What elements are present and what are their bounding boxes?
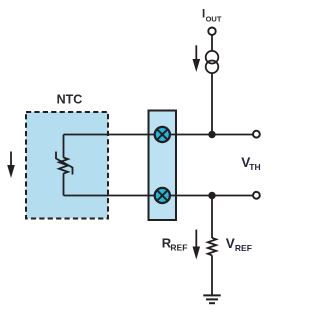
switch block (blue rectangle) [149,111,177,221]
thermistor RT zigzag [59,158,68,174]
svg-text:REF: REF [170,243,187,253]
NTC dashed box [26,112,108,219]
svg-text:NTC: NTC [57,93,83,107]
svg-text:OUT: OUT [206,15,222,24]
thermistor strike (NTC mark) [56,152,73,175]
node junction bottom [208,192,215,199]
svg-text:REF: REF [235,243,252,253]
wire: NTC loop left vertical bottom segment [63,173,65,195]
wire: resistor to ground [211,255,213,295]
terminal: V_TH output [253,131,260,138]
arrow: V_REF sense direction [193,230,201,260]
ground [203,295,220,303]
resistor R_REF zigzag [208,238,216,255]
wire: current source to top junction [211,73,213,134]
arrow: I_OUT current direction [193,45,201,72]
multiplier M2 (bottom X circle) [155,188,170,203]
wire: top horizontal V_TH rail [64,134,254,136]
wire: bottom junction to resistor [211,196,213,239]
multiplier M1 (top X circle) [155,127,170,142]
terminal: V_REF output [253,192,260,199]
svg-text:TH: TH [249,162,260,172]
svg-text:V: V [226,236,235,251]
terminal: I_OUT input circle [208,28,215,35]
node junction top [208,131,215,138]
wire: terminal to current source [211,35,213,51]
current source I1 (two overlapping circles) [206,51,219,73]
wire: NTC loop left vertical top segment [63,135,65,158]
arrow: left current direction arrow [7,152,15,179]
wire: bottom horizontal V_REF rail [64,195,254,197]
